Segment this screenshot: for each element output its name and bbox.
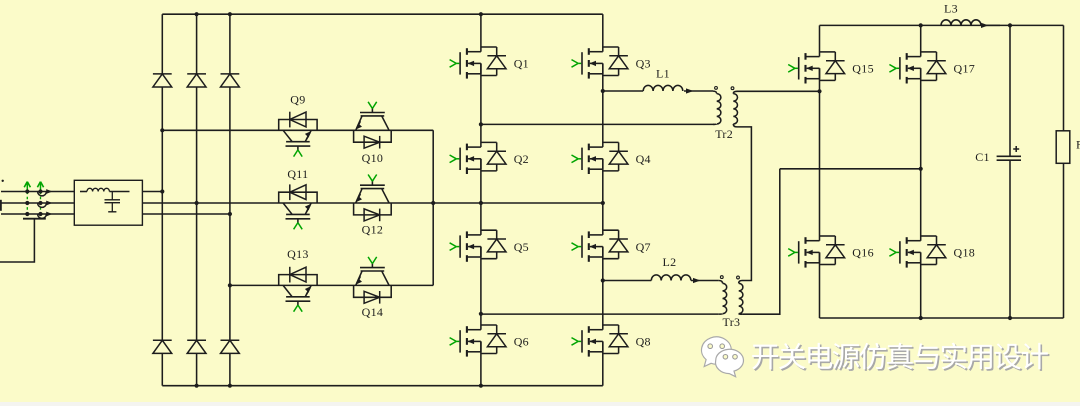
transistor Q13 (reverse-blocking IGBT, diode up) xyxy=(279,267,317,312)
C1 polarity plus xyxy=(1013,148,1019,150)
wire Tr3 secondary bottom to riser xyxy=(742,169,779,314)
filter capacitor icon xyxy=(111,192,113,200)
wire phase A input xyxy=(1,191,74,193)
wire rectifier column 3 xyxy=(229,14,231,74)
wire output left leg xyxy=(819,25,821,56)
svg-text:C1: C1 xyxy=(975,150,990,164)
watermark WeChat logo xyxy=(702,337,744,377)
svg-text:Q4: Q4 xyxy=(636,152,651,166)
wire secondary series link xyxy=(737,127,751,283)
node junctions on top rail xyxy=(195,12,199,16)
node bus junction xyxy=(431,201,435,205)
svg-text:Tr3: Tr3 xyxy=(722,315,740,329)
svg-text:Q6: Q6 xyxy=(514,335,529,349)
three-phase source (clipped at edge) xyxy=(0,200,2,211)
transistor Q17 (MOSFET with body diode) xyxy=(889,52,945,84)
wire secondary midpoint line xyxy=(780,168,921,170)
inductor L2 xyxy=(651,275,691,281)
svg-text:Q2: Q2 xyxy=(514,152,529,166)
inductor L3 xyxy=(941,20,981,26)
diode D2 (top rectifier) xyxy=(187,73,206,75)
transistor Q6 (MOSFET with body diode) xyxy=(450,325,506,357)
wire bottom DC rail xyxy=(162,385,603,387)
transistor Q8 (MOSFET with body diode) xyxy=(572,325,628,357)
svg-text:Q5: Q5 xyxy=(514,240,529,254)
node Q7-Q8 junction xyxy=(601,278,605,282)
svg-text:Q16: Q16 xyxy=(852,246,874,260)
wire phase B input xyxy=(1,202,74,204)
transistor Q1 (MOSFET with body diode) xyxy=(450,47,506,79)
load resistor R1 xyxy=(1063,25,1065,130)
transformer Tr2 xyxy=(713,91,738,127)
transistor Q11 (reverse-blocking IGBT, diode up) xyxy=(279,184,317,229)
wire row 3 (phase C switch row) xyxy=(230,284,433,286)
svg-text:Q7: Q7 xyxy=(636,240,651,254)
wire Tr2 secondary top xyxy=(737,90,820,92)
voltage probe green arrow xyxy=(40,183,42,192)
ground / neutral bar xyxy=(23,218,46,220)
current probe xyxy=(38,192,47,196)
transistor Q2 (MOSFET with body diode) xyxy=(450,142,506,174)
transistor Q10 (reverse-blocking IGBT, diode down) xyxy=(354,102,392,149)
wire row 1 (phase A switch row) xyxy=(162,129,433,131)
wire phase C input xyxy=(1,213,74,215)
wire output top rail xyxy=(820,24,1064,26)
current probe xyxy=(38,214,47,218)
wire rectifier column 2 xyxy=(196,14,198,74)
inductor L1 xyxy=(643,85,683,91)
Tr3 phase dots xyxy=(720,276,723,279)
filter inductor icon xyxy=(80,191,87,193)
wire output bottom rail xyxy=(820,317,1064,319)
wire left leg segments xyxy=(480,14,482,52)
transformer Tr3 xyxy=(719,281,743,315)
svg-text:L1: L1 xyxy=(656,67,670,81)
svg-text:L3: L3 xyxy=(944,2,958,16)
svg-text:Q9: Q9 xyxy=(290,93,305,107)
capacitor C1 xyxy=(1009,25,1011,156)
transistor Q15 (MOSFET with body diode) xyxy=(788,52,844,84)
watermark text 开关电源仿真与实用设计 xyxy=(754,344,1050,371)
diode D6 (bottom rectifier) xyxy=(221,339,240,341)
svg-text:Q18: Q18 xyxy=(954,246,976,260)
junction dots on probe xyxy=(38,189,42,193)
junction dots on probe xyxy=(25,189,29,193)
node midline junctions xyxy=(479,201,483,205)
transistor Q7 (MOSFET with body diode) xyxy=(572,230,628,262)
svg-text:Q13: Q13 xyxy=(287,247,309,261)
wire Tr2 primary return xyxy=(481,123,715,125)
svg-text:Q3: Q3 xyxy=(636,57,651,71)
transistor Q12 (reverse-blocking IGBT, diode down) xyxy=(354,175,392,222)
svg-text:Q11: Q11 xyxy=(287,167,308,181)
Tr2 phase dots xyxy=(715,87,718,90)
wire output right leg xyxy=(920,25,922,56)
wire switch bus vertical xyxy=(432,130,434,285)
EMI filter block xyxy=(74,180,142,225)
svg-text:Q10: Q10 xyxy=(362,151,384,165)
current probe xyxy=(38,203,47,207)
transistor Q3 (MOSFET with body diode) xyxy=(572,47,628,79)
node Q15-Q16 junction xyxy=(817,89,821,93)
wire phase C to column 3 xyxy=(142,213,230,215)
wire phase B line (row 2 bus) xyxy=(142,202,602,204)
diode D4 (bottom rectifier) xyxy=(153,339,172,341)
svg-text:Q8: Q8 xyxy=(636,335,651,349)
transistor Q5 (MOSFET with body diode) xyxy=(450,230,506,262)
svg-text:Tr2: Tr2 xyxy=(715,127,733,141)
transistor Q4 (MOSFET with body diode) xyxy=(572,142,628,174)
transistor Q14 (reverse-blocking IGBT, diode down) xyxy=(354,257,392,304)
svg-text:Q1: Q1 xyxy=(514,57,529,71)
wire L2 line xyxy=(603,280,652,282)
wire phase A to column 1 xyxy=(142,191,162,193)
voltage probe green arrow xyxy=(26,183,28,192)
diode D1 (top rectifier) xyxy=(153,73,172,75)
svg-text:R1: R1 xyxy=(1076,138,1080,152)
wire rectifier column 1 xyxy=(161,14,163,74)
node Q5-Q6 junction xyxy=(479,312,483,316)
node junctions on bottom rail xyxy=(195,384,199,388)
wire neutral return xyxy=(0,219,34,262)
diode D3 (top rectifier) xyxy=(221,73,240,75)
node Q17-Q18 junction xyxy=(919,167,923,171)
wire top DC rail xyxy=(162,13,603,15)
transistor Q16 (MOSFET with body diode) xyxy=(788,236,844,268)
wire Tr3 primary return xyxy=(481,313,719,315)
node Q1-Q2 junction xyxy=(479,122,483,126)
svg-text:Q12: Q12 xyxy=(362,223,384,237)
transistor Q9 (reverse-blocking IGBT, diode up) xyxy=(279,112,317,157)
diode D5 (bottom rectifier) xyxy=(187,339,206,341)
svg-text:L2: L2 xyxy=(663,255,677,269)
svg-text:Q14: Q14 xyxy=(362,305,384,319)
svg-text:Q17: Q17 xyxy=(954,62,976,76)
node Q3-Q4 junction xyxy=(601,89,605,93)
svg-text:Q15: Q15 xyxy=(852,62,874,76)
wire right leg segments xyxy=(602,14,604,52)
transistor Q18 (MOSFET with body diode) xyxy=(889,236,945,268)
wire L1 line xyxy=(603,90,643,92)
